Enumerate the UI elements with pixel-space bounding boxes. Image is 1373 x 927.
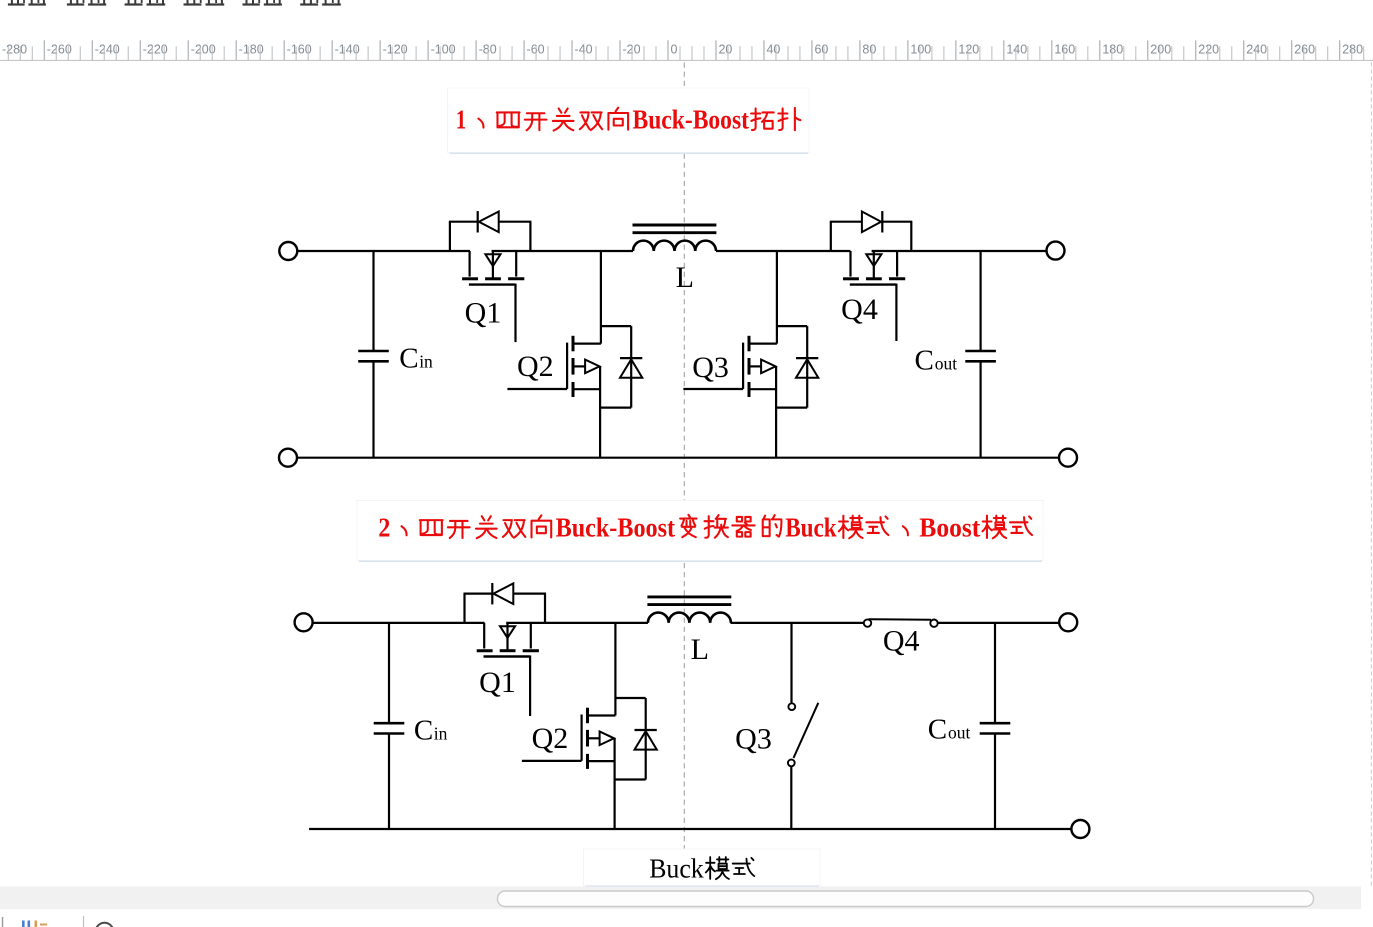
diode of Q1 (circuit 1) (pointing left) <box>477 211 479 232</box>
title 2 background box <box>357 501 1043 561</box>
transistor Q2 (circuit 2) body diode loop <box>615 697 645 699</box>
capacitor Cout (circuit 2) bottom lead <box>994 734 996 830</box>
svg-text:Buck: Buck <box>649 853 704 883</box>
svg-text:260: 260 <box>1294 42 1315 56</box>
svg-text:Buck: Buck <box>785 511 837 542</box>
svg-text:40: 40 <box>766 42 780 56</box>
capacitor Cin (circuit 2) bottom lead <box>388 734 390 830</box>
transistor Q2 (circuit 1) MOSFET body <box>573 343 601 345</box>
transistor Q3 (circuit 1) body diode loop <box>777 325 807 327</box>
svg-text:Q2: Q2 <box>532 722 569 755</box>
inductor L (circuit 1) core lines <box>633 224 717 227</box>
title 1 background box <box>448 88 810 153</box>
svg-text:2: 2 <box>378 511 390 542</box>
switch Q3 (open, circuit 2) <box>790 623 792 703</box>
svg-text:80: 80 <box>862 42 876 56</box>
source of Q2 (circuit 2) <box>588 760 615 762</box>
source of Q3 (circuit 1) <box>749 388 776 390</box>
svg-text:-280: -280 <box>2 42 27 56</box>
terminal input - (circuit 1) <box>279 449 297 467</box>
gate of Q2 (circuit 1) <box>566 343 568 389</box>
svg-text:Q2: Q2 <box>517 350 554 383</box>
svg-text:Boost: Boost <box>919 511 981 542</box>
transistor Q4 (circuit 1) MOSFET body <box>849 251 851 277</box>
capacitor Cout (circuit 2) plates <box>980 722 1011 725</box>
capacitor Cout (circuit 2) top lead <box>994 623 996 723</box>
capacitor Cin (circuit 1) top lead <box>372 251 374 351</box>
vertical guide line x=0 <box>683 63 685 887</box>
transistor Q1 (circuit 1) MOSFET body <box>469 251 471 277</box>
svg-text:L: L <box>676 261 694 294</box>
svg-text:120: 120 <box>958 42 979 56</box>
switch Q4 (closed, circuit 2) <box>864 619 871 626</box>
body arrow of Q1 (circuit 1) <box>492 251 494 278</box>
svg-text:in: in <box>434 724 448 744</box>
svg-text:280: 280 <box>1342 42 1363 56</box>
transistor Q4 (circuit 1) bypass diode loop <box>830 222 832 251</box>
switch Q3 bottom lead <box>790 766 792 829</box>
svg-text:0: 0 <box>671 42 678 56</box>
transistor Q3 (circuit 1) MOSFET body <box>749 343 777 345</box>
svg-text:Buck-Boost: Buck-Boost <box>556 511 676 542</box>
terminal output + (circuit 2) <box>1059 613 1077 631</box>
svg-text:C: C <box>414 715 433 747</box>
status bar fragments <box>2 917 4 927</box>
svg-text:20: 20 <box>718 42 732 56</box>
transistor Q1 (circuit 1) bypass diode loop <box>449 222 451 251</box>
body arrow of Q1 (circuit 2) <box>506 623 508 650</box>
capacitor Cin (circuit 1) plates <box>358 350 389 353</box>
inductor L (circuit 2) core lines <box>647 595 731 598</box>
buck-mode caption background box <box>584 849 821 886</box>
svg-text:220: 220 <box>1198 42 1219 56</box>
body diode of Q2 (circuit 1) (pointing up) <box>620 357 642 359</box>
terminal input + (circuit 2) <box>295 613 313 631</box>
transistor Q2 (circuit 1) drain lead <box>600 251 602 344</box>
svg-text:Buck-Boost: Buck-Boost <box>632 104 749 135</box>
transistor Q2 (circuit 2) MOSFET body <box>588 714 616 716</box>
svg-text:180: 180 <box>1102 42 1123 56</box>
svg-text:Q4: Q4 <box>841 293 878 326</box>
capacitor Cout (circuit 1) bottom lead <box>979 361 981 457</box>
capacitor Cin (circuit 2) plates <box>374 722 405 725</box>
inductor L (circuit 2) winding <box>648 613 731 623</box>
menu bar (clipped tabs) <box>8 3 25 5</box>
inductor L (circuit 1) winding <box>633 241 716 251</box>
terminal output - (circuit 1) <box>1059 449 1077 467</box>
terminal output + (circuit 1) <box>1047 242 1065 260</box>
body diode of Q3 (circuit 1) (pointing up) <box>796 357 818 359</box>
body diode of Q2 (circuit 2) (pointing up) <box>635 729 657 731</box>
transistor Q2 (circuit 2) drain lead <box>614 623 616 716</box>
body arrow of Q2 (circuit 2) <box>588 737 600 739</box>
svg-text:140: 140 <box>1006 42 1027 56</box>
top rail wire segments (circuit 1) <box>297 250 470 252</box>
transistor Q2 (circuit 1) body diode loop <box>601 325 631 327</box>
capacitor Cout (circuit 1) plates <box>965 350 996 353</box>
source of Q2 (circuit 1) <box>573 388 600 390</box>
transistor Q1 (circuit 2) MOSFET body <box>483 623 485 649</box>
capacitor Cout (circuit 1) top lead <box>979 251 981 351</box>
gate of Q1 (circuit 1) <box>469 283 516 285</box>
svg-text:Q3: Q3 <box>735 723 772 756</box>
capacitor Cin (circuit 1) bottom lead <box>372 361 374 457</box>
svg-text:1: 1 <box>456 104 467 135</box>
svg-text:out: out <box>948 723 971 743</box>
gate of Q3 (circuit 1) <box>742 343 744 389</box>
top rail wire segments (circuit 2) <box>313 622 485 624</box>
svg-text:in: in <box>419 352 433 372</box>
svg-text:out: out <box>935 354 958 374</box>
svg-text:C: C <box>399 343 418 375</box>
gate of Q4 (circuit 1) <box>850 283 897 285</box>
body arrow of Q4 (circuit 1) <box>873 251 875 278</box>
ruler <box>0 28 1373 60</box>
transistor Q1 (circuit 2) bypass diode loop <box>463 594 465 623</box>
diode of Q1 (circuit 2) (pointing left) <box>491 583 493 604</box>
svg-text:L: L <box>691 633 709 666</box>
horizontal scrollbar track <box>0 887 1361 910</box>
zoom icon (clipped circle) <box>96 923 114 927</box>
horizontal scrollbar thumb <box>498 891 1314 907</box>
switch Q3 blade <box>794 703 819 758</box>
gate of Q2 (circuit 2) <box>580 715 582 761</box>
bottom rail wire (circuit 2) <box>309 828 1072 830</box>
svg-text:160: 160 <box>1054 42 1075 56</box>
svg-text:C: C <box>915 345 934 377</box>
terminal output - (circuit 2) <box>1071 820 1089 838</box>
page boundary right edge <box>1370 63 1372 887</box>
svg-text:60: 60 <box>814 42 828 56</box>
svg-text:C: C <box>928 714 947 746</box>
bottom rail wire (circuit 1) <box>297 457 1059 459</box>
diode of Q4 (circuit 1) (pointing right) <box>881 211 883 232</box>
capacitor Cin (circuit 2) top lead <box>388 623 390 723</box>
switch Q4 blade <box>869 618 931 621</box>
svg-text:Q4: Q4 <box>883 625 920 658</box>
svg-text:100: 100 <box>910 42 931 56</box>
transistor Q3 (circuit 1) drain lead <box>776 251 778 344</box>
gate of Q1 (circuit 2) <box>484 655 531 657</box>
terminal input + (circuit 1) <box>279 242 297 260</box>
body arrow of Q3 (circuit 1) <box>749 365 761 367</box>
svg-text:200: 200 <box>1150 42 1171 56</box>
svg-text:Q1: Q1 <box>479 666 516 699</box>
body arrow of Q2 (circuit 1) <box>573 365 585 367</box>
svg-text:Q1: Q1 <box>465 297 502 330</box>
svg-text:240: 240 <box>1246 42 1267 56</box>
svg-text:Q3: Q3 <box>692 351 729 384</box>
